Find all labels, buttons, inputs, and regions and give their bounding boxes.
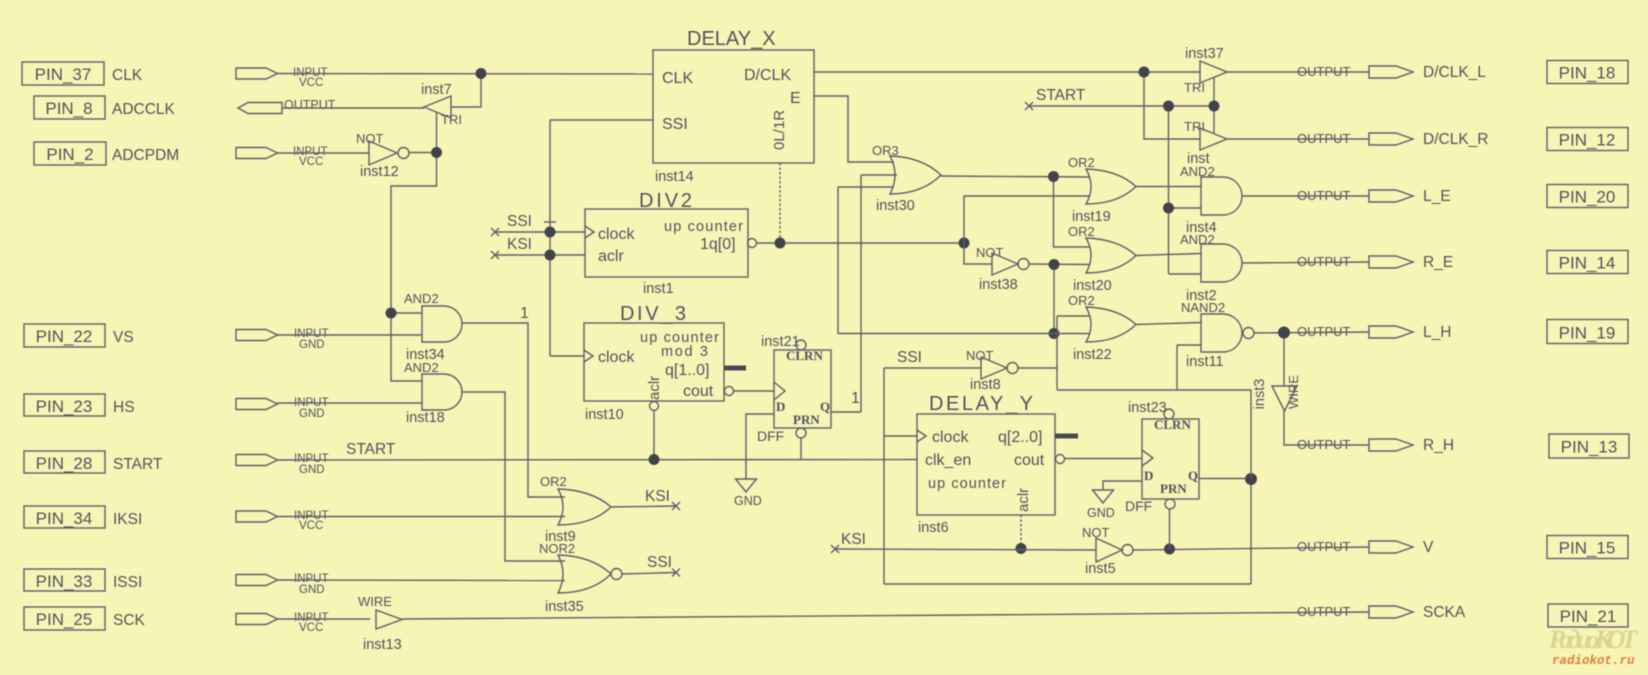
svg-text:q[2..0]: q[2..0] [998, 429, 1042, 446]
svg-text:ISSI: ISSI [113, 574, 142, 591]
input pin PIN_25 SCK [24, 607, 329, 634]
svg-text:cout: cout [1014, 452, 1045, 469]
svg-text:CLK: CLK [662, 70, 693, 87]
svg-text:Q: Q [1188, 468, 1198, 483]
input pin PIN_34 IKSI [24, 506, 329, 532]
svg-text:R_E: R_E [1423, 254, 1453, 271]
svg-text:PIN_20: PIN_20 [1559, 188, 1616, 207]
svg-text:inst19: inst19 [1072, 209, 1111, 225]
svg-text:PIN_23: PIN_23 [36, 397, 93, 416]
input pin PIN_33 ISSI [24, 569, 329, 596]
wire ADCCLK net [282, 107, 424, 109]
svg-text:GND: GND [299, 339, 325, 351]
and gate AND2 inst2 [1180, 232, 1242, 304]
svg-text:OUTPUT: OUTPUT [1297, 324, 1351, 339]
svg-text:D/CLK: D/CLK [744, 67, 791, 84]
svg-text:D: D [1144, 468, 1153, 483]
node KSI junction [545, 250, 556, 261]
svg-text:AND2: AND2 [1180, 232, 1215, 247]
svg-text:PRN: PRN [793, 412, 820, 427]
svg-text:up counter: up counter [928, 476, 1006, 492]
wire DIV_3 aclr to START [653, 411, 655, 460]
svg-text:1: 1 [851, 390, 860, 407]
svg-text:inst30: inst30 [876, 198, 915, 214]
svg-text:PIN_2: PIN_2 [46, 145, 93, 164]
input pin PIN_23 HS [24, 394, 329, 420]
svg-text:radiokot.ru: radiokot.ru [1552, 654, 1635, 668]
svg-text:TRI: TRI [1184, 80, 1205, 95]
output pin PIN_13 R_H [1297, 434, 1629, 458]
wire CLK net [278, 74, 654, 108]
svg-text:V: V [1423, 539, 1434, 556]
wire inst2 output R_E net [1242, 262, 1369, 263]
svg-text:OR2: OR2 [1068, 224, 1095, 239]
svg-text:PIN_12: PIN_12 [1559, 131, 1616, 150]
svg-text:PIN_18: PIN_18 [1559, 64, 1616, 83]
svg-text:clock: clock [932, 429, 969, 446]
svg-text:inst6: inst6 [918, 520, 949, 536]
svg-text:PIN_19: PIN_19 [1559, 324, 1616, 343]
wire TRI37 output D/CLK_L [1227, 71, 1369, 73]
wire ISSI net [278, 579, 566, 582]
svg-text:inst3: inst3 [1252, 379, 1268, 410]
block DELAY_X inst14 [653, 28, 814, 185]
ground GND (below inst21) [734, 414, 774, 508]
svg-text:AND2: AND2 [404, 291, 439, 306]
node inst12 output junction [431, 147, 442, 158]
svg-text:GND: GND [299, 584, 325, 596]
svg-text:aclr: aclr [646, 376, 663, 400]
svg-text:inst10: inst10 [585, 407, 624, 423]
node START junction a [1163, 101, 1174, 112]
svg-text:DFF: DFF [1125, 498, 1152, 514]
svg-text:GND: GND [299, 408, 325, 420]
svg-text:PIN_37: PIN_37 [35, 65, 92, 84]
wire IKSI net [278, 516, 566, 518]
nor gate NOR2 inst35 [539, 541, 622, 615]
svg-text:PIN_15: PIN_15 [1559, 539, 1616, 558]
svg-text:clock: clock [598, 226, 635, 243]
wire DIV_3 cout to DFF21 clock [734, 390, 775, 392]
ground GND (below inst23) [1087, 481, 1142, 520]
wire START net [278, 459, 918, 462]
node L_H junction [1278, 327, 1290, 339]
svg-text:OUTPUT: OUTPUT [1297, 254, 1351, 269]
wire inst20 output [1136, 254, 1201, 256]
svg-text:РадиоКОТ: РадиоКОТ [1548, 625, 1638, 654]
node 1q[0] junction a [775, 238, 786, 249]
output pin PIN_19 L_H [1297, 320, 1628, 344]
or gate OR2 inst19 [1068, 155, 1136, 225]
wire D/CLK net [814, 72, 1200, 139]
inverter NOT inst8 [966, 348, 1018, 393]
output pin PIN_12 D/CLK_R [1297, 128, 1628, 151]
node START junction c [1163, 203, 1174, 214]
output pin PIN_21 SCKA [1297, 604, 1628, 627]
node inst22 input junction [1049, 328, 1060, 339]
or gate OR2 inst9 [540, 474, 611, 545]
svg-text:inst20: inst20 [1073, 278, 1112, 294]
svg-text:ADCCLK: ADCCLK [112, 101, 176, 118]
svg-text:0L/1R: 0L/1R [771, 110, 788, 150]
buffer WIRE inst13 [358, 594, 402, 653]
svg-text:OUTPUT: OUTPUT [284, 98, 336, 112]
svg-text:inst23: inst23 [1128, 400, 1167, 416]
wire inst22 output [1136, 323, 1201, 325]
svg-text:VCC: VCC [299, 622, 323, 634]
svg-text:SSI: SSI [662, 116, 688, 133]
and gate AND2 inst4 [1180, 164, 1242, 236]
svg-text:inst14: inst14 [655, 169, 694, 185]
svg-text:PIN_14: PIN_14 [1559, 254, 1616, 273]
or gate OR2 inst20 [1068, 224, 1136, 294]
input pin PIN_37 CLK [22, 62, 328, 89]
input pin PIN_2 ADCPDM [34, 142, 328, 168]
svg-text:NOT: NOT [976, 245, 1004, 260]
inverter NOT inst12 [356, 131, 409, 180]
svg-text:TRI: TRI [441, 112, 462, 127]
output pin PIN_15 V [1297, 536, 1628, 559]
buffer WIRE inst3 (rotated down) [1252, 375, 1301, 411]
svg-text:DFF: DFF [757, 428, 784, 444]
svg-text:PIN_28: PIN_28 [36, 454, 93, 473]
svg-text:SSI: SSI [897, 349, 922, 366]
output pin PIN_14 R_E [1297, 251, 1628, 274]
svg-text:OR2: OR2 [1068, 155, 1095, 170]
svg-text:OR2: OR2 [540, 474, 567, 489]
wire DELAY_Y cout to DFF23 [1065, 458, 1143, 460]
svg-text:PIN_13: PIN_13 [1561, 438, 1618, 457]
wire 1q[0] net [756, 242, 964, 244]
svg-text:Q: Q [820, 399, 830, 414]
svg-text:OUTPUT: OUTPUT [1297, 539, 1351, 554]
svg-text:GND: GND [734, 494, 762, 508]
svg-text:1q[0]: 1q[0] [700, 236, 736, 253]
node CLK junction [476, 68, 487, 79]
svg-text:inst11: inst11 [1186, 354, 1224, 370]
svg-text:inst35: inst35 [545, 599, 584, 615]
svg-text:KSI: KSI [507, 236, 532, 253]
wire DFF23 PRN to V net [1169, 509, 1171, 549]
node V junction [1164, 544, 1175, 555]
node aclr junction [1016, 543, 1027, 554]
svg-text:inst13: inst13 [363, 637, 402, 653]
svg-text:inst7: inst7 [421, 82, 452, 98]
wire NOT5 output V net [1133, 547, 1369, 550]
or gate OR2 inst22 [1068, 293, 1136, 363]
wire VS net [278, 334, 423, 336]
node START junction b [1209, 101, 1220, 112]
svg-text:IKSI: IKSI [113, 511, 142, 528]
wire inst19 output [1136, 186, 1201, 188]
buffer TRI inst7 [421, 82, 462, 127]
svg-text:inst18: inst18 [406, 410, 445, 426]
svg-text:inst5: inst5 [1085, 561, 1116, 577]
wire SSI feedback loop [884, 349, 1251, 584]
wire ADCPDM net [278, 152, 370, 154]
wire inst4 output L_E net [1242, 195, 1369, 197]
wire KSI stub at DELAY_Y [831, 531, 1096, 553]
svg-text:NAND2: NAND2 [1181, 300, 1225, 315]
svg-text:L_E: L_E [1423, 188, 1451, 205]
svg-text:SSI: SSI [647, 554, 672, 571]
wire SCKA net [402, 612, 1369, 619]
svg-text:up counter: up counter [664, 219, 743, 235]
svg-text:START: START [346, 441, 396, 458]
block DIV2 inst1 [585, 190, 757, 297]
buffer TRI inst [1184, 119, 1227, 167]
svg-text:SSI: SSI [507, 213, 532, 230]
svg-text:D/CLK_R: D/CLK_R [1423, 131, 1488, 148]
node 1q[0] junction b [959, 238, 970, 249]
wire inst11 output L_H net [1254, 332, 1369, 445]
svg-text:q[1..0]: q[1..0] [665, 362, 709, 379]
svg-text:GND: GND [299, 464, 325, 476]
output pin PIN_18 D/CLK_L [1297, 61, 1628, 84]
svg-text:R_H: R_H [1423, 437, 1454, 454]
svg-text:inst22: inst22 [1073, 347, 1112, 363]
svg-text:CLRN: CLRN [786, 348, 823, 363]
svg-text:TRI: TRI [1184, 119, 1205, 134]
node START-aclr junction [649, 454, 660, 465]
buffer TRI inst37 [1184, 46, 1227, 95]
input pin PIN_28 START [24, 451, 329, 476]
svg-text:inst1: inst1 [643, 281, 674, 297]
wire TRI7 enable [436, 112, 438, 153]
node OR3 out junction [1048, 171, 1059, 182]
svg-text:L_H: L_H [1423, 324, 1451, 341]
svg-text:DIV_3: DIV_3 [620, 303, 686, 325]
flip-flop DFF inst23 [1125, 400, 1199, 514]
wire DFF21 PRN to START [800, 438, 802, 460]
svg-text:PIN_22: PIN_22 [36, 327, 93, 346]
svg-text:cout: cout [683, 383, 714, 400]
wire inst22 lower input net [838, 187, 1089, 334]
svg-text:D/CLK_L: D/CLK_L [1423, 64, 1486, 81]
wire 0L/1R feed [779, 163, 781, 243]
svg-text:inst12: inst12 [360, 164, 399, 180]
input pin PIN_22 VS [24, 324, 329, 351]
wire OR3 output net [941, 176, 1089, 247]
svg-text:aclr: aclr [598, 248, 624, 265]
svg-text:PIN_21: PIN_21 [1560, 607, 1617, 626]
wire SSI stub at DIV2 clock [491, 213, 585, 236]
svg-text:CLK: CLK [112, 67, 143, 84]
inverter NOT inst38 [976, 245, 1029, 293]
wire SSI branch to inst22 and inst11 [1057, 316, 1251, 479]
output pin PIN_8 ADCCLK [34, 96, 336, 119]
svg-text:PIN_33: PIN_33 [36, 572, 93, 591]
svg-text:NOR2: NOR2 [539, 541, 575, 556]
svg-text:KSI: KSI [841, 531, 866, 548]
wire inst12 output net [391, 153, 437, 382]
wire SCK net [278, 618, 371, 620]
block DIV_3 inst10 [584, 303, 746, 423]
and gate AND2 inst18 [404, 360, 462, 426]
svg-text:VS: VS [113, 329, 134, 346]
svg-text:aclr: aclr [1015, 488, 1032, 512]
svg-text:PIN_25: PIN_25 [36, 610, 93, 629]
node inst38 out junction [1049, 259, 1060, 270]
svg-text:E: E [790, 90, 801, 107]
svg-text:1: 1 [520, 305, 529, 322]
wire KSI stub at DIV2 aclr [491, 236, 585, 259]
svg-text:SCKA: SCKA [1423, 604, 1466, 621]
svg-text:clk_en: clk_en [925, 452, 971, 469]
wire START stub top right [1025, 78, 1214, 275]
svg-text:SCK: SCK [113, 612, 146, 629]
wire inst18 out to inst35 [462, 392, 565, 561]
and gate AND2 inst34 [404, 291, 462, 363]
svg-text:WIRE: WIRE [358, 594, 392, 609]
wire HS net [278, 402, 423, 404]
svg-text:DELAY_X: DELAY_X [687, 28, 776, 50]
node inst34 input junction [386, 308, 397, 319]
svg-text:START: START [1036, 87, 1086, 104]
svg-text:inst38: inst38 [979, 277, 1018, 293]
svg-text:clock: clock [598, 349, 635, 366]
svg-text:PIN_34: PIN_34 [36, 509, 93, 528]
output pin PIN_20 L_E [1297, 185, 1628, 208]
svg-text:inst37: inst37 [1185, 46, 1224, 62]
node DFF23 Q junction [1245, 473, 1257, 485]
svg-text:OR2: OR2 [1068, 293, 1095, 308]
wire inst8 output [1018, 367, 1057, 369]
svg-text:START: START [113, 456, 163, 473]
wire net 1 (DFF21 Q to OR3) [831, 175, 897, 412]
svg-text:WIRE: WIRE [1286, 375, 1301, 409]
svg-text:GND: GND [1087, 506, 1115, 520]
node D/CLK junction [1139, 67, 1150, 78]
svg-text:mod 3: mod 3 [661, 344, 708, 360]
node SSI junction [545, 227, 556, 238]
svg-text:PRN: PRN [1160, 481, 1187, 496]
svg-text:ADCPDM: ADCPDM [112, 147, 179, 164]
wire DELAY_Y aclr feed [1020, 515, 1022, 549]
svg-text:AND2: AND2 [404, 360, 439, 375]
svg-text:VCC: VCC [299, 520, 323, 532]
svg-text:NOT: NOT [356, 131, 384, 146]
svg-text:inst8: inst8 [970, 377, 1001, 393]
svg-text:PIN_8: PIN_8 [45, 99, 92, 118]
wire inst38 output net [1029, 264, 1089, 334]
nand gate NAND2 inst11 [1181, 300, 1254, 370]
svg-text:HS: HS [113, 399, 135, 416]
svg-text:D: D [776, 399, 785, 414]
wire E net to OR3 [814, 96, 894, 162]
svg-text:CLRN: CLRN [1154, 417, 1191, 432]
svg-text:VCC: VCC [299, 156, 323, 168]
block DELAY_Y inst6 [917, 393, 1078, 536]
wire 1q[0] to inst19 and inst38 [964, 196, 1089, 264]
svg-text:VCC: VCC [299, 77, 323, 89]
flip-flop DFF inst21 [757, 334, 831, 444]
wire net 1 (inst34 out to inst9) [462, 323, 565, 497]
inverter NOT inst5 [1082, 525, 1133, 577]
or gate OR3 inst30 [872, 143, 941, 214]
wire KSI stub at inst9 [611, 488, 680, 510]
wire TRI inst output D/CLK_R [1227, 138, 1369, 140]
wire SSI-KSI vertical to DELAY_X and DIV_3 [544, 120, 653, 356]
svg-text:KSI: KSI [645, 488, 670, 505]
wire SSI stub at inst35 [622, 554, 680, 577]
